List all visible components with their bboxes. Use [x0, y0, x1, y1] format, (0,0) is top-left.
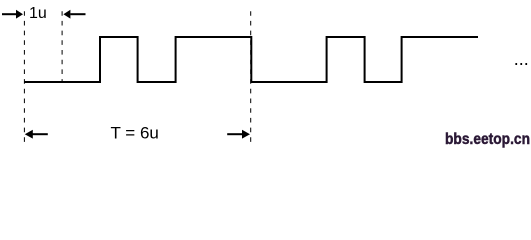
svg-text:T = 6u: T = 6u — [111, 123, 159, 142]
bottom right arrow pointing right at period end — [227, 133, 242, 135]
dashed marker line period start — [23, 11, 25, 146]
svg-text:...: ... — [514, 49, 529, 69]
svg-text:1u: 1u — [29, 5, 47, 22]
dashed marker line period end — [250, 11, 252, 146]
waveform square wave — [24, 37, 478, 82]
top right arrow pointing left at 1u end — [70, 13, 85, 15]
svg-text:bbs.eetop.cn: bbs.eetop.cn — [445, 131, 530, 148]
top left arrow pointing right at 1u start — [2, 13, 17, 15]
dashed marker line 1u — [61, 11, 63, 81]
bottom left arrow pointing left at period start — [32, 133, 48, 135]
